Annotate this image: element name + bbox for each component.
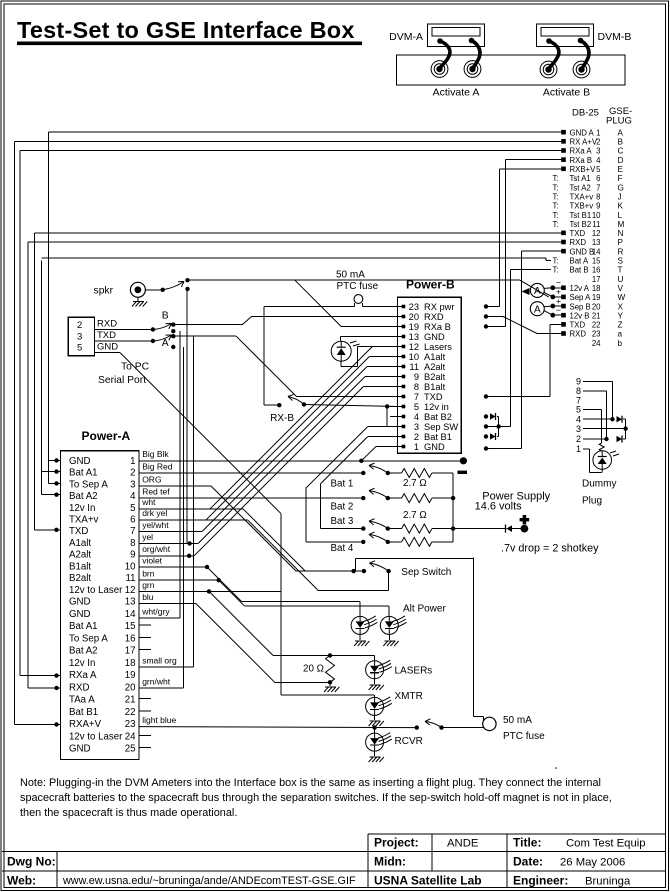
svg-text:7: 7 bbox=[130, 526, 135, 537]
svg-text:XMTR: XMTR bbox=[395, 691, 423, 702]
svg-text:2: 2 bbox=[77, 320, 82, 331]
svg-text:Bat 2: Bat 2 bbox=[331, 502, 354, 513]
svg-text:wht: wht bbox=[141, 497, 156, 507]
svg-text:T:: T: bbox=[553, 220, 559, 229]
svg-text:small org: small org bbox=[142, 655, 177, 665]
svg-text:B1alt: B1alt bbox=[424, 382, 446, 392]
svg-text:Web:: Web: bbox=[7, 874, 36, 888]
svg-text:12v in: 12v in bbox=[424, 402, 449, 412]
svg-text:12: 12 bbox=[125, 585, 136, 596]
svg-text:Bat B1: Bat B1 bbox=[424, 432, 452, 442]
svg-text:TXA+v: TXA+v bbox=[570, 192, 594, 201]
svg-text:Tst A2: Tst A2 bbox=[570, 183, 591, 192]
svg-text:LASERs: LASERs bbox=[395, 665, 433, 676]
svg-text:7: 7 bbox=[596, 183, 600, 192]
svg-text:6: 6 bbox=[596, 174, 600, 183]
svg-text:26 May 2006: 26 May 2006 bbox=[560, 857, 625, 869]
svg-text:PLUG: PLUG bbox=[606, 116, 632, 127]
svg-text:Bat 4: Bat 4 bbox=[331, 543, 354, 554]
svg-text:T:: T: bbox=[553, 183, 559, 192]
svg-text:A1alt: A1alt bbox=[424, 352, 446, 362]
svg-text:T:: T: bbox=[553, 174, 559, 183]
svg-text:S: S bbox=[618, 257, 624, 266]
svg-text:RXa B: RXa B bbox=[424, 322, 451, 332]
svg-text:light blue: light blue bbox=[142, 715, 176, 725]
svg-text:Tst B1: Tst B1 bbox=[570, 211, 592, 220]
svg-text:23: 23 bbox=[592, 330, 601, 339]
svg-text:Power-A: Power-A bbox=[82, 429, 131, 443]
svg-text:2.7 Ω: 2.7 Ω bbox=[403, 510, 427, 521]
svg-text:A: A bbox=[618, 128, 624, 137]
svg-text:8: 8 bbox=[130, 538, 135, 549]
svg-text:yel/wht: yel/wht bbox=[142, 520, 169, 530]
svg-text:RXD: RXD bbox=[69, 682, 89, 693]
svg-text:24: 24 bbox=[592, 339, 601, 348]
svg-text:2: 2 bbox=[130, 468, 135, 479]
svg-text:50 mA: 50 mA bbox=[503, 715, 532, 726]
svg-text:Y: Y bbox=[618, 311, 624, 320]
svg-text:1: 1 bbox=[596, 128, 600, 137]
svg-text:18: 18 bbox=[592, 284, 601, 293]
svg-text:RXa A: RXa A bbox=[570, 147, 593, 156]
svg-text:Serial Port: Serial Port bbox=[98, 375, 146, 386]
svg-text:12v In: 12v In bbox=[69, 658, 95, 669]
svg-text:P: P bbox=[618, 238, 624, 247]
svg-text:Title:: Title: bbox=[513, 836, 541, 850]
svg-text:PTC fuse: PTC fuse bbox=[503, 731, 545, 742]
svg-text:12v to Laser: 12v to Laser bbox=[69, 585, 123, 596]
svg-text:a: a bbox=[618, 330, 623, 339]
svg-text:Com Test Equip: Com Test Equip bbox=[566, 838, 646, 850]
svg-text:Lasers: Lasers bbox=[424, 342, 452, 352]
svg-text:USNA Satellite Lab: USNA Satellite Lab bbox=[374, 874, 482, 888]
svg-text:5: 5 bbox=[414, 402, 419, 412]
svg-text:3: 3 bbox=[576, 424, 581, 434]
svg-text:5: 5 bbox=[77, 342, 82, 353]
svg-text:12: 12 bbox=[409, 342, 419, 352]
svg-text:6: 6 bbox=[130, 515, 135, 526]
svg-text:1: 1 bbox=[576, 444, 581, 454]
svg-text:Engineer:: Engineer: bbox=[513, 874, 568, 888]
svg-text:5: 5 bbox=[596, 165, 601, 174]
svg-text:14.6 volts: 14.6 volts bbox=[475, 501, 523, 513]
svg-text:12v In: 12v In bbox=[69, 503, 95, 514]
svg-text:Bat A1: Bat A1 bbox=[69, 468, 98, 479]
svg-text:20: 20 bbox=[125, 682, 136, 693]
svg-text:GND: GND bbox=[69, 597, 91, 608]
svg-text:B2alt: B2alt bbox=[424, 372, 446, 382]
svg-text:3: 3 bbox=[77, 331, 82, 342]
svg-text:drk yel: drk yel bbox=[142, 508, 167, 518]
svg-text:Note: Plugging-in the DVM Ame: Note: Plugging-in the DVM Ameters into t… bbox=[20, 777, 601, 789]
svg-text:12v A: 12v A bbox=[570, 284, 590, 293]
svg-text:RX pwr: RX pwr bbox=[424, 302, 454, 312]
svg-text:blu: blu bbox=[142, 592, 154, 602]
svg-text:RXD: RXD bbox=[570, 330, 587, 339]
svg-text:RXA+V: RXA+V bbox=[69, 719, 102, 730]
svg-text:13: 13 bbox=[409, 332, 419, 342]
svg-text:12v to Laser: 12v to Laser bbox=[69, 731, 123, 742]
svg-text:spkr: spkr bbox=[94, 286, 114, 297]
svg-text:20 Ω: 20 Ω bbox=[303, 664, 324, 675]
svg-text:b: b bbox=[618, 339, 623, 348]
svg-text:Test-Set to GSE Interface Box: Test-Set to GSE Interface Box bbox=[17, 17, 355, 43]
svg-text:GND: GND bbox=[69, 609, 91, 620]
svg-text:A1alt: A1alt bbox=[69, 538, 91, 549]
svg-text:GND A: GND A bbox=[570, 128, 595, 137]
svg-text:TXD: TXD bbox=[69, 526, 88, 537]
svg-text:RX-B: RX-B bbox=[270, 413, 294, 424]
svg-text:14: 14 bbox=[125, 609, 136, 620]
svg-text:11: 11 bbox=[592, 220, 600, 229]
svg-text:Sep Switch: Sep Switch bbox=[401, 567, 451, 578]
svg-text:25: 25 bbox=[125, 744, 136, 755]
svg-text:B: B bbox=[618, 138, 624, 147]
svg-text:Alt Power: Alt Power bbox=[403, 604, 446, 615]
svg-text:T:: T: bbox=[553, 202, 559, 211]
svg-text:Bat A: Bat A bbox=[570, 257, 589, 266]
svg-text:T:: T: bbox=[553, 211, 559, 220]
svg-text:10: 10 bbox=[592, 211, 601, 220]
svg-text:GND: GND bbox=[424, 332, 445, 342]
svg-text:B2alt: B2alt bbox=[69, 573, 91, 584]
svg-text:21: 21 bbox=[592, 311, 601, 320]
svg-text:TXD: TXD bbox=[570, 321, 586, 330]
svg-text:Bat B: Bat B bbox=[570, 266, 589, 275]
svg-text:4: 4 bbox=[596, 156, 601, 165]
svg-text:Bat 1: Bat 1 bbox=[331, 479, 354, 490]
svg-text:12v B: 12v B bbox=[570, 311, 590, 320]
svg-text:RXa B: RXa B bbox=[570, 156, 593, 165]
svg-text:A: A bbox=[534, 304, 541, 315]
svg-text:22: 22 bbox=[125, 707, 136, 718]
svg-text:RCVR: RCVR bbox=[395, 736, 423, 747]
svg-text:50 mA: 50 mA bbox=[336, 270, 365, 281]
svg-text:5: 5 bbox=[576, 405, 581, 415]
svg-text:D: D bbox=[618, 156, 624, 165]
svg-text:ORG: ORG bbox=[142, 474, 161, 484]
svg-text:C: C bbox=[618, 147, 624, 156]
svg-text:RX A+V: RX A+V bbox=[570, 138, 598, 147]
svg-text:Bruninga: Bruninga bbox=[585, 876, 631, 888]
svg-text:RXD: RXD bbox=[570, 238, 587, 247]
svg-text:23: 23 bbox=[125, 719, 136, 730]
svg-text:22: 22 bbox=[592, 321, 601, 330]
svg-text:.7v drop = 2 shotkey: .7v drop = 2 shotkey bbox=[501, 543, 599, 555]
svg-text:Plug: Plug bbox=[582, 496, 602, 507]
svg-text:GND: GND bbox=[69, 744, 91, 755]
svg-text:TXB+v: TXB+v bbox=[570, 202, 594, 211]
svg-text:F: F bbox=[618, 174, 623, 183]
svg-text:16: 16 bbox=[592, 266, 601, 275]
svg-text:14: 14 bbox=[592, 247, 601, 256]
svg-text:16: 16 bbox=[125, 633, 136, 644]
svg-text:Red tef: Red tef bbox=[142, 486, 170, 496]
svg-text:To Sep A: To Sep A bbox=[69, 633, 108, 644]
svg-text:19: 19 bbox=[409, 322, 419, 332]
svg-text:11: 11 bbox=[409, 362, 419, 372]
svg-text:spacecraft batteries to the sp: spacecraft batteries to the spacecraft b… bbox=[20, 792, 612, 804]
svg-text:ANDE: ANDE bbox=[447, 838, 479, 850]
svg-text:M: M bbox=[618, 220, 625, 229]
svg-text:5: 5 bbox=[130, 503, 135, 514]
svg-text:Z: Z bbox=[618, 321, 623, 330]
svg-text:TAa A: TAa A bbox=[69, 695, 95, 706]
svg-text:yel: yel bbox=[142, 532, 153, 542]
svg-text:www.ew.usna.edu/~bruninga/ande: www.ew.usna.edu/~bruninga/ande/ANDEcomTE… bbox=[62, 875, 356, 887]
svg-text:2.7 Ω: 2.7 Ω bbox=[403, 478, 427, 489]
svg-text:GND: GND bbox=[424, 442, 445, 452]
svg-text:T:: T: bbox=[553, 192, 559, 201]
svg-text:13: 13 bbox=[125, 597, 136, 608]
svg-text:19: 19 bbox=[125, 670, 136, 681]
svg-text:Activate B: Activate B bbox=[543, 87, 590, 99]
svg-text:RXB+V: RXB+V bbox=[570, 165, 597, 174]
svg-text:17: 17 bbox=[592, 275, 601, 284]
svg-text:Sep A: Sep A bbox=[570, 293, 592, 302]
svg-text:4: 4 bbox=[414, 412, 419, 422]
svg-text:23: 23 bbox=[409, 302, 419, 312]
svg-text:RXD: RXD bbox=[97, 319, 117, 330]
svg-text:3: 3 bbox=[130, 479, 135, 490]
svg-text:7: 7 bbox=[414, 392, 419, 402]
svg-text:X: X bbox=[618, 302, 624, 311]
svg-text:13: 13 bbox=[592, 238, 601, 247]
svg-text:Big Red: Big Red bbox=[142, 461, 173, 471]
svg-text:grn: grn bbox=[142, 580, 155, 590]
svg-text:org/wht: org/wht bbox=[142, 544, 171, 554]
svg-text:TXD: TXD bbox=[424, 392, 443, 402]
svg-text:wht/gry: wht/gry bbox=[141, 606, 170, 616]
svg-text:TXA+v: TXA+v bbox=[69, 515, 98, 526]
svg-text:A2alt: A2alt bbox=[424, 362, 446, 372]
svg-text:RXa A: RXa A bbox=[69, 670, 97, 681]
svg-text:Bat B2: Bat B2 bbox=[424, 412, 452, 422]
svg-text:4: 4 bbox=[130, 491, 136, 502]
svg-text:A2alt: A2alt bbox=[69, 550, 91, 561]
svg-text:8: 8 bbox=[414, 382, 419, 392]
svg-text:GND: GND bbox=[69, 456, 91, 467]
svg-text:9: 9 bbox=[130, 550, 135, 561]
svg-text:W: W bbox=[618, 293, 626, 302]
svg-text:Power-B: Power-B bbox=[406, 278, 455, 292]
svg-text:Tst B2: Tst B2 bbox=[570, 220, 592, 229]
svg-text:1: 1 bbox=[130, 456, 135, 467]
svg-text:T:: T: bbox=[553, 266, 559, 275]
svg-text:violet: violet bbox=[142, 555, 162, 565]
svg-text:−: − bbox=[556, 305, 561, 315]
svg-text:GND: GND bbox=[97, 342, 118, 353]
svg-text:Dummy: Dummy bbox=[582, 479, 616, 490]
svg-text:DVM-A: DVM-A bbox=[389, 31, 423, 43]
svg-text:2: 2 bbox=[576, 434, 581, 444]
svg-text:21: 21 bbox=[125, 695, 136, 706]
svg-text:RXD: RXD bbox=[424, 312, 444, 322]
svg-text:B1alt: B1alt bbox=[69, 561, 91, 572]
svg-text:20: 20 bbox=[592, 302, 601, 311]
svg-text:19: 19 bbox=[592, 293, 601, 302]
svg-text:Bat A2: Bat A2 bbox=[69, 491, 98, 502]
svg-text:Bat 3: Bat 3 bbox=[331, 516, 354, 527]
svg-text:TXD: TXD bbox=[97, 330, 116, 341]
svg-text:R: R bbox=[618, 247, 624, 256]
svg-text:PTC fuse: PTC fuse bbox=[337, 281, 379, 292]
svg-text:11: 11 bbox=[125, 573, 135, 584]
svg-text:TXD: TXD bbox=[570, 229, 586, 238]
svg-text:Bat A1: Bat A1 bbox=[69, 621, 98, 632]
svg-text:1: 1 bbox=[414, 442, 419, 452]
svg-text:Bat B1: Bat B1 bbox=[69, 707, 98, 718]
svg-text:15: 15 bbox=[592, 257, 601, 266]
svg-text:Sep B: Sep B bbox=[570, 302, 591, 311]
svg-text:10: 10 bbox=[409, 352, 419, 362]
svg-text:T: T bbox=[618, 266, 623, 275]
svg-text:3: 3 bbox=[414, 422, 419, 432]
svg-text:DVM-B: DVM-B bbox=[598, 31, 632, 43]
svg-text:brn: brn bbox=[142, 569, 155, 579]
svg-text:2: 2 bbox=[414, 432, 419, 442]
svg-text:Date:: Date: bbox=[513, 855, 543, 869]
svg-text:3: 3 bbox=[596, 147, 600, 156]
svg-text:Dwg No:: Dwg No: bbox=[7, 855, 56, 869]
svg-text:B: B bbox=[162, 311, 169, 322]
svg-text:J: J bbox=[618, 192, 622, 201]
svg-text:Tst A1: Tst A1 bbox=[570, 174, 591, 183]
svg-text:2: 2 bbox=[596, 138, 600, 147]
svg-text:K: K bbox=[618, 202, 624, 211]
svg-text:L: L bbox=[618, 211, 623, 220]
svg-text:N: N bbox=[618, 229, 624, 238]
svg-text:24: 24 bbox=[125, 731, 136, 742]
svg-text:To PC: To PC bbox=[121, 361, 150, 372]
svg-text:9: 9 bbox=[596, 202, 600, 211]
svg-text:U: U bbox=[618, 275, 624, 284]
svg-text:15: 15 bbox=[125, 621, 136, 632]
svg-text:Midn:: Midn: bbox=[374, 855, 406, 869]
svg-text:17: 17 bbox=[125, 646, 136, 657]
svg-text:T:: T: bbox=[553, 257, 559, 266]
svg-text:10: 10 bbox=[125, 561, 136, 572]
svg-text:18: 18 bbox=[125, 658, 136, 669]
svg-text:then the spacecraft is thus ma: then the spacecraft is thus made operati… bbox=[20, 807, 237, 819]
svg-text:Bat A2: Bat A2 bbox=[69, 646, 98, 657]
svg-text:GND B: GND B bbox=[570, 247, 595, 256]
svg-text:9: 9 bbox=[414, 372, 419, 382]
svg-text:grn/wht: grn/wht bbox=[142, 676, 171, 686]
svg-text:Activate A: Activate A bbox=[433, 87, 480, 99]
svg-text:DB-25: DB-25 bbox=[572, 108, 599, 119]
svg-text:Project:: Project: bbox=[374, 836, 419, 850]
svg-text:12: 12 bbox=[592, 229, 601, 238]
svg-text:20: 20 bbox=[409, 312, 419, 322]
svg-text:8: 8 bbox=[596, 192, 600, 201]
svg-text:Big Blk: Big Blk bbox=[142, 449, 169, 459]
svg-text:To Sep A: To Sep A bbox=[69, 479, 108, 490]
svg-text:G: G bbox=[618, 183, 624, 192]
svg-text:V: V bbox=[618, 284, 624, 293]
svg-text:Sep SW: Sep SW bbox=[424, 422, 458, 432]
svg-text:E: E bbox=[618, 165, 624, 174]
